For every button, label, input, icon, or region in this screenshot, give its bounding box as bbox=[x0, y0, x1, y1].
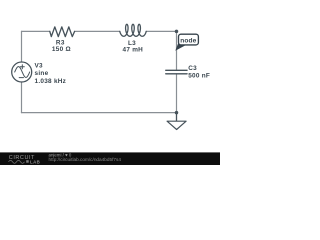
svg-text:C3: C3 bbox=[188, 65, 197, 72]
wire right vertical upper bbox=[176, 31, 178, 70]
voltage source V3 circle bbox=[12, 62, 32, 82]
node flag tail bbox=[175, 42, 186, 51]
wire cap to bottom junction bbox=[176, 74, 178, 113]
svg-text:http://circuitlab.com/c/nda4bd: http://circuitlab.com/c/nda4bd5f7s4 bbox=[49, 157, 122, 162]
ground stub bbox=[176, 113, 178, 122]
svg-text:1.038 kHz: 1.038 kHz bbox=[35, 78, 67, 85]
footer bar bbox=[0, 152, 220, 165]
svg-text:500 nF: 500 nF bbox=[188, 73, 210, 80]
wire left vertical lower bbox=[21, 82, 23, 113]
resistor R3 bbox=[50, 27, 75, 37]
svg-text:node: node bbox=[180, 37, 196, 44]
wire between R3 and L3 bbox=[75, 30, 120, 32]
wire bottom horizontal bbox=[22, 112, 177, 114]
svg-text:V3: V3 bbox=[35, 62, 44, 69]
V3 plus sign bbox=[20, 65, 24, 69]
capacitor C3 plates bbox=[166, 70, 187, 74]
svg-text:150 Ω: 150 Ω bbox=[52, 46, 71, 53]
wire left vertical upper bbox=[21, 31, 23, 62]
V3 minus sign bbox=[19, 77, 23, 79]
svg-text:sine: sine bbox=[35, 70, 49, 77]
inductor L3 bbox=[120, 24, 146, 36]
footer logo block bbox=[26, 160, 29, 163]
footer logo squiggle bbox=[9, 160, 25, 163]
svg-text:LAB: LAB bbox=[30, 159, 40, 164]
wire L3 to node junction bbox=[146, 30, 176, 32]
wire top left segment bbox=[22, 30, 50, 32]
V3 sine glyph bbox=[15, 67, 30, 78]
svg-text:47 mH: 47 mH bbox=[123, 47, 144, 54]
junction dot top bbox=[175, 30, 179, 34]
junction dot bottom bbox=[175, 111, 179, 115]
ground symbol triangle bbox=[167, 121, 186, 129]
node flag box bbox=[179, 34, 199, 45]
